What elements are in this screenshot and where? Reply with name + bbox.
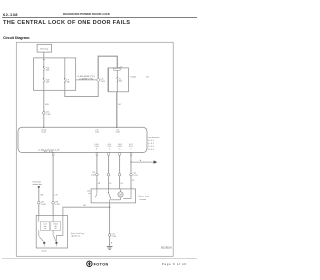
label under key box bbox=[42, 250, 47, 252]
footer page number bbox=[162, 262, 187, 266]
wire step from fuse line 2 bbox=[65, 82, 98, 97]
label under bus at left entry bbox=[41, 129, 46, 133]
svg-text:4: 4 bbox=[119, 148, 120, 150]
connector circle row 3 bbox=[118, 173, 121, 176]
inner block LOCK bbox=[40, 222, 49, 231]
wire fuse line 1 exit bbox=[43, 83, 45, 91]
label under bus right entry bbox=[115, 129, 119, 133]
footer rule bbox=[2, 258, 197, 260]
pin stub col1 bbox=[96, 153, 98, 156]
svg-text:Battery: Battery bbox=[41, 47, 49, 50]
svg-text:Lock: Lock bbox=[43, 224, 46, 226]
svg-text:THE CENTRAL LOCK OF ONE DOOR F: THE CENTRAL LOCK OF ONE DOOR FAILS bbox=[3, 20, 130, 26]
fuse F1 bbox=[43, 66, 49, 72]
node bus entry right bbox=[116, 127, 117, 128]
switch S1 inside actuator bbox=[96, 189, 97, 198]
svg-text:0.85-L-R 0.5-L-R: 0.85-L-R 0.5-L-R bbox=[39, 149, 61, 151]
svg-text:From power: From power bbox=[33, 182, 42, 184]
wire riser and top jog bbox=[98, 56, 117, 78]
svg-text:B-W: B-W bbox=[45, 104, 49, 106]
svg-text:Fusible: Fusible bbox=[131, 77, 137, 79]
svg-text:side: side bbox=[54, 226, 57, 228]
wire actuator feed 1 bbox=[96, 155, 98, 173]
footer logo bbox=[87, 261, 109, 267]
wire continuation A bbox=[131, 159, 154, 162]
svg-text:C-112: C-112 bbox=[133, 175, 137, 177]
circuit diagram caption bbox=[3, 36, 30, 40]
ground G1 bbox=[107, 246, 113, 249]
wire fuse box output bbox=[76, 76, 97, 80]
wire actuator ground run bbox=[109, 203, 111, 247]
svg-text:I-09: I-09 bbox=[92, 172, 95, 174]
svg-text:D-04: D-04 bbox=[148, 149, 154, 151]
wire actuator feed 4 bbox=[130, 155, 132, 162]
pin labels inside junction block col 4 bbox=[129, 144, 134, 150]
svg-text:actuator: actuator bbox=[140, 198, 147, 201]
wire fuse line 2 exit bbox=[64, 83, 66, 91]
switch S2 inside actuator bbox=[108, 189, 111, 199]
inner block UNLOCK bbox=[51, 222, 61, 231]
svg-text:C-108: C-108 bbox=[115, 132, 119, 134]
svg-text:C-111: C-111 bbox=[91, 175, 95, 177]
wire key cylinder feed bbox=[39, 189, 44, 215]
wire fusible link output bbox=[117, 92, 122, 127]
fuse box (junction block) bbox=[34, 58, 76, 90]
svg-text:F-1: F-1 bbox=[119, 78, 122, 80]
junction connector block (long box) bbox=[18, 127, 147, 152]
svg-text:C-102: C-102 bbox=[46, 114, 51, 116]
pin stub col3 bbox=[119, 153, 121, 156]
svg-text:D-02: D-02 bbox=[148, 143, 154, 145]
svg-text:6: 6 bbox=[109, 148, 110, 150]
fuse F3 bbox=[64, 78, 70, 84]
fusible link box bbox=[108, 68, 128, 92]
wire fuse line 1 bbox=[43, 58, 45, 67]
switch blade left bbox=[39, 230, 44, 241]
label from power window relay bbox=[33, 182, 42, 186]
svg-text:0.5-L: 0.5-L bbox=[108, 146, 112, 148]
wire feed 4 continues bbox=[130, 162, 132, 173]
svg-text:C-110: C-110 bbox=[55, 204, 60, 206]
node ground branch bbox=[109, 207, 110, 208]
svg-text:I-14: I-14 bbox=[116, 129, 119, 131]
pin stub col2 bbox=[108, 153, 110, 156]
svg-text:J/C (1): J/C (1) bbox=[41, 129, 46, 131]
connector circle row 4 bbox=[130, 173, 138, 177]
wire to door switch from junction block bbox=[53, 155, 58, 215]
svg-text:62-138: 62-138 bbox=[3, 12, 18, 17]
wire inside actuator right bbox=[123, 189, 131, 199]
fuse F2 bbox=[43, 78, 49, 84]
wire fuse line 2 bbox=[64, 58, 66, 78]
wire actuator feed 3 bbox=[119, 155, 121, 173]
svg-text:DIAGNOSIS POWER DOOR LOCK: DIAGNOSIS POWER DOOR LOCK bbox=[63, 12, 111, 16]
wire inside key box left bbox=[38, 215, 40, 221]
svg-text:C-109: C-109 bbox=[41, 204, 46, 206]
label actuator box left bbox=[87, 191, 91, 195]
connector C1 on left feed bbox=[43, 112, 51, 116]
switch blade right bbox=[53, 230, 56, 241]
svg-text:side: side bbox=[44, 226, 47, 228]
battery B1 bbox=[37, 44, 52, 52]
svg-text:Circuit Diagram:: Circuit Diagram: bbox=[3, 36, 30, 40]
svg-text:6EL0831A0: 6EL0831A0 bbox=[161, 246, 172, 250]
svg-text:C-114: C-114 bbox=[112, 236, 117, 238]
svg-text:C-105: C-105 bbox=[95, 132, 99, 134]
wire left feed down bbox=[44, 90, 49, 127]
svg-text:Door lock: Door lock bbox=[139, 195, 150, 198]
connector C6 on key cylinder feed bbox=[38, 201, 46, 205]
svg-text:C-209: C-209 bbox=[101, 81, 105, 83]
node battery feed bbox=[43, 59, 44, 60]
svg-text:D-211: D-211 bbox=[42, 132, 46, 134]
pin stub under bus2 left bbox=[52, 153, 54, 156]
wire inside key box right bbox=[56, 215, 63, 241]
page title bbox=[3, 20, 130, 26]
diagram frame bbox=[16, 42, 173, 256]
diagram code bbox=[161, 246, 172, 250]
svg-text:Page 9 of 16: Page 9 of 16 bbox=[162, 262, 187, 266]
svg-text:8: 8 bbox=[96, 148, 97, 150]
svg-text:3 L: 3 L bbox=[109, 183, 111, 185]
pin labels inside junction block col 2 bbox=[108, 144, 112, 150]
node branch A bbox=[130, 161, 131, 162]
svg-text:cylinder sw: cylinder sw bbox=[71, 234, 81, 237]
wire actuator feed 2 bbox=[108, 155, 110, 173]
connector circle row 1 bbox=[91, 172, 98, 176]
svg-text:window relay: window relay bbox=[33, 184, 42, 186]
legend at right end of junction block bbox=[148, 137, 159, 151]
connector circle row 2 bbox=[107, 173, 110, 176]
fuse F4 fusible link bbox=[117, 70, 123, 92]
wire battery to fuse box bbox=[43, 52, 45, 58]
node bus entry left bbox=[43, 127, 44, 128]
header rule bbox=[2, 17, 197, 19]
pin labels inside junction block col 3 bbox=[118, 144, 123, 150]
svg-text:D-03: D-03 bbox=[148, 146, 154, 148]
wires circles to actuator box bbox=[97, 176, 100, 189]
svg-text:0.5-L: 0.5-L bbox=[108, 144, 112, 146]
pin labels inside junction block col 1 bbox=[95, 144, 100, 150]
svg-text:I-10: I-10 bbox=[133, 173, 136, 175]
svg-text:I-11: I-11 bbox=[96, 129, 99, 131]
motor M1 bbox=[118, 189, 123, 197]
pin connector at fusible link box top bbox=[114, 67, 122, 71]
arrow feed into key cylinder wire bbox=[38, 186, 41, 189]
svg-text:Unlock: Unlock bbox=[53, 224, 58, 226]
pin stub col4 bbox=[130, 153, 132, 156]
svg-text:x-xx-xx-xx-xx-x: x-xx-xx-xx-xx-x bbox=[148, 137, 159, 139]
label under bus mid bbox=[95, 129, 99, 133]
pin labels inside junction block left bbox=[39, 149, 61, 153]
svg-text:2-B/W (*2): 2-B/W (*2) bbox=[79, 78, 94, 80]
header section title bbox=[63, 12, 111, 16]
svg-text:link: link bbox=[146, 77, 149, 79]
terminal T2 bbox=[56, 242, 58, 246]
svg-text:FOTON: FOTON bbox=[94, 263, 109, 267]
wire inside actuator bottom bbox=[110, 197, 121, 203]
svg-text:(D-14): (D-14) bbox=[42, 250, 47, 252]
label actuator box right bbox=[139, 195, 150, 201]
label fusible link box bbox=[131, 77, 149, 79]
terminal T1 bbox=[43, 242, 45, 246]
svg-text:12 12: 12 12 bbox=[43, 151, 53, 153]
svg-text:D-01: D-01 bbox=[148, 140, 154, 142]
door lock key cylinder switch box bbox=[36, 215, 67, 248]
connector C5 on switch wire bbox=[52, 201, 60, 205]
connector diamond C2 bbox=[96, 78, 105, 83]
svg-text:I-22: I-22 bbox=[101, 79, 104, 81]
door lock actuator box bbox=[91, 189, 135, 203]
connector C7 on ground run bbox=[108, 234, 116, 245]
svg-text:Lock: Lock bbox=[87, 191, 91, 193]
wire inside key box mid bbox=[52, 215, 54, 221]
wire branch to key cylinder switch bbox=[63, 205, 110, 215]
svg-text:4 B: 4 B bbox=[98, 183, 100, 185]
header page number 62-138 bbox=[3, 12, 18, 17]
svg-text:2: 2 bbox=[131, 148, 132, 150]
label key cylinder switch bbox=[71, 232, 84, 237]
svg-text:0.85-B/W (*1): 0.85-B/W (*1) bbox=[78, 76, 96, 78]
wire between fuses bbox=[43, 71, 45, 79]
arrow continuation A bbox=[154, 160, 158, 163]
